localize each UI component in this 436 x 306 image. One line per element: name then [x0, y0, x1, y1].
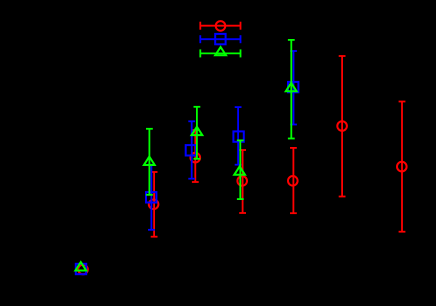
blue errorbar B: [148, 165, 155, 230]
red errorbar F: [339, 56, 346, 197]
red circle D: [237, 176, 247, 186]
green errorbar B: [146, 129, 153, 195]
blue square C: [186, 145, 196, 155]
red errorbar D: [239, 150, 246, 213]
red errorbar G: [399, 102, 406, 232]
green triangle D: [234, 166, 245, 174]
red circle B: [149, 200, 159, 210]
legend blue entry: xerrorbar sample with square: [200, 34, 240, 44]
red series (circles, yerrorbars): [78, 56, 406, 274]
blue square E: [288, 82, 298, 92]
green triangle E: [286, 83, 297, 91]
legend red entry: xerrorbar sample with circle: [200, 21, 240, 31]
green series (triangles, yerrorbars): [75, 40, 296, 271]
red circle A: [78, 265, 88, 275]
green triangle B: [144, 157, 155, 165]
blue square D: [233, 131, 243, 141]
green triangle A: [75, 262, 86, 270]
red circle G: [397, 162, 407, 172]
blue series (squares, yerrorbars): [76, 51, 299, 274]
red circle C: [191, 153, 201, 163]
blue errorbar E: [290, 51, 297, 125]
red errorbar E: [290, 148, 297, 213]
blue errorbar D: [235, 107, 242, 165]
legend green entry: xerrorbar sample with triangle: [200, 47, 240, 57]
green errorbar E: [288, 40, 295, 139]
red circle F: [337, 121, 347, 131]
green errorbar C: [194, 107, 201, 159]
red errorbar B: [151, 172, 158, 237]
blue errorbar C: [188, 121, 195, 178]
red circle E: [288, 176, 298, 186]
blue square A: [76, 264, 86, 274]
blue square B: [146, 192, 156, 202]
red errorbar C: [192, 130, 199, 182]
green triangle C: [192, 127, 203, 135]
green errorbar D: [237, 140, 244, 199]
